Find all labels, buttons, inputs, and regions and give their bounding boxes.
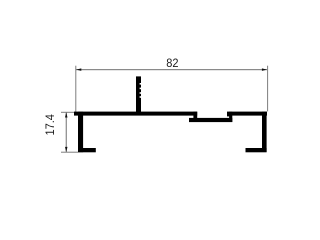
arrowhead top (17.4 dim) [65, 112, 68, 117]
svg-text:82: 82 [166, 58, 178, 70]
profile right leg [262, 112, 267, 152]
svg-text:17.4: 17.4 [44, 114, 56, 136]
profile groove floor [189, 118, 232, 122]
profile right foot [246, 148, 267, 152]
profile top flange left segment [74, 112, 197, 116]
extension line bottom (17.4 dim) [61, 152, 78, 153]
profile tooth at left end of right flange [227, 113, 230, 116]
dimension line 82 [76, 69, 267, 70]
arrowhead right (82 dim) [262, 68, 267, 71]
extension line top (17.4 dim) [61, 112, 76, 113]
extension line left (82 dim) [75, 66, 76, 113]
profile serrated screw rib [136, 76, 141, 115]
profile left foot [78, 148, 96, 152]
extension line right (82 dim) [267, 66, 268, 112]
profile top flange right segment [227, 112, 267, 116]
rib serration notches [140, 83, 142, 98]
arrowhead left (82 dim) [76, 68, 81, 71]
profile left leg [78, 112, 83, 153]
arrowhead bottom (17.4 dim) [65, 147, 68, 152]
profile groove left wall [193, 112, 197, 122]
profile groove right wall [229, 112, 232, 122]
dimension line 17.4 [66, 112, 67, 152]
